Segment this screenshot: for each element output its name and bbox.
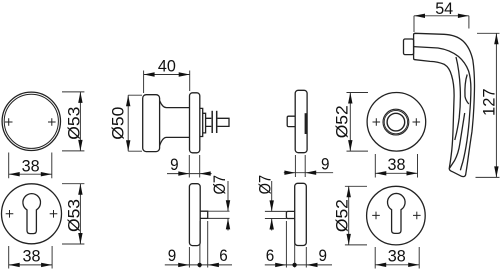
dim 9-6 left extension lines	[189, 221, 207, 268]
svg-text:127: 127	[480, 88, 499, 116]
svg-text:9: 9	[321, 154, 330, 173]
rosette TL inner ring	[4, 94, 58, 148]
dim Ø7 right dimension line	[271, 181, 273, 231]
dim 54 arrow left	[414, 14, 425, 18]
svg-text:9: 9	[170, 155, 179, 174]
knob neck top line	[160, 101, 190, 108]
svg-text:Ø50: Ø50	[109, 107, 128, 140]
knob spindle bar segment	[206, 118, 212, 126]
knob washer plate 2	[216, 111, 218, 133]
dim 9 knob-rose arrow right	[178, 171, 189, 175]
svg-text:9: 9	[319, 246, 328, 265]
screw cross TR right	[413, 118, 421, 126]
dim 9 right arrow right	[284, 171, 295, 175]
svg-text:Ø53: Ø53	[65, 107, 84, 140]
dim Ø50 arrow down	[126, 140, 130, 151]
dim Ø52 BR dimension line	[348, 186, 350, 245]
dim 54 extension lines	[414, 16, 469, 32]
dim 9-6 left arrow left	[208, 263, 219, 267]
rosette BR circle	[367, 186, 426, 245]
dim 40 arrow left	[144, 72, 155, 76]
dim Ø7 left dimension line	[227, 181, 229, 231]
dim 38 BL extension lines	[9, 246, 52, 269]
dim Ø52 BR arrow up	[347, 186, 351, 197]
svg-text:Ø7: Ø7	[256, 175, 275, 195]
dim 9 right dimension line	[284, 172, 333, 174]
knob spindle end	[218, 118, 230, 126]
dim 6-9 right arrow right	[275, 263, 286, 267]
dim Ø53 TL arrow down	[78, 140, 82, 151]
screw cross TR left	[373, 118, 381, 126]
knob head	[143, 95, 160, 152]
dim 54 dimension line	[414, 15, 469, 17]
dim Ø53 BL extension lines	[62, 184, 84, 244]
dim 127 dimension line	[495, 33, 497, 177]
dim Ø50 dimension line	[127, 95, 129, 151]
keyhole BR euro profile	[388, 193, 406, 233]
screw cross TL right	[48, 118, 56, 126]
dim 6-9 right extension lines	[286, 221, 306, 268]
dim 127 arrow down	[494, 166, 498, 177]
dim Ø53 BL dimension line	[79, 184, 81, 244]
dim Ø52 TR dimension line	[349, 93, 351, 152]
dim Ø53 BL arrow down	[78, 233, 82, 244]
dim 9 right arrow left	[305, 171, 316, 175]
hub TR outer circle	[383, 109, 409, 135]
dim 38 TR arrow left	[375, 171, 386, 175]
screw cross TL left	[5, 118, 13, 126]
dim Ø53 TL extension lines	[62, 92, 84, 151]
dim 38 BR extension lines	[375, 247, 419, 269]
svg-text:Ø52: Ø52	[333, 105, 352, 138]
dim Ø52 TR extension lines	[347, 93, 369, 152]
dim 6-9 right dimension line	[265, 264, 332, 266]
screw cross BL left	[6, 210, 14, 218]
knob washer plate 1	[211, 111, 213, 133]
dim 38 TR dimension line	[375, 172, 417, 174]
dim 127 extension lines	[476, 33, 500, 177]
handle wave groove line 3	[450, 113, 465, 168]
screw cross BR right	[413, 212, 421, 220]
dim Ø53 BL arrow up	[78, 184, 82, 195]
lower-left rose side view	[189, 184, 200, 246]
svg-text:Ø52: Ø52	[332, 199, 351, 232]
handle wave groove line 2	[465, 75, 469, 105]
dim Ø7 right arrow up	[270, 219, 274, 230]
hub TR middle ring	[384, 110, 407, 133]
screw cross BL right	[50, 210, 58, 218]
handle outline	[414, 33, 475, 176]
keyhole BL euro profile	[23, 194, 41, 234]
dim 38 TL dimension line	[9, 173, 52, 175]
dim 9 knob-rose dimension line	[167, 173, 212, 175]
dim 9 knob-rose arrow left	[200, 171, 211, 175]
dim Ø52 BR extension lines	[345, 186, 367, 245]
svg-text:Ø53: Ø53	[65, 199, 84, 232]
dim Ø53 TL dimension line	[79, 92, 81, 151]
dim 9-6 left dimension line	[165, 264, 232, 266]
svg-text:38: 38	[22, 157, 40, 176]
lower-left rose stem	[200, 211, 208, 218]
dim Ø50 arrow up	[126, 95, 130, 106]
hub TR inner circle	[387, 113, 405, 131]
dim 40 arrow right	[179, 72, 190, 76]
svg-text:6: 6	[266, 246, 275, 265]
handle wave groove line 1	[455, 57, 461, 140]
dim 9-6 left junction dot	[197, 263, 201, 267]
knob flange 1	[200, 108, 203, 136]
svg-text:Ø7: Ø7	[210, 175, 229, 195]
screw cross BR left	[372, 212, 380, 220]
lower-right rose stem	[286, 211, 294, 218]
dim 38 BR arrow left	[375, 263, 386, 267]
svg-text:9: 9	[168, 246, 177, 265]
dim 9 knob-rose extension lines	[189, 155, 199, 178]
handle middle band line	[414, 47, 471, 171]
upper-right rose side view	[295, 90, 307, 152]
svg-text:38: 38	[23, 246, 41, 265]
dim 38 BL arrow left	[9, 263, 20, 267]
lower-right rose side view	[295, 183, 307, 245]
dim Ø7 right arrow down	[270, 200, 274, 211]
dim Ø7 left extension lines	[208, 211, 230, 218]
knob rose side view	[190, 93, 200, 153]
dim 38 BL dimension line	[9, 264, 52, 266]
dim 38 BR arrow right	[408, 263, 419, 267]
dim Ø50 extension lines	[128, 95, 142, 151]
dim Ø7 right extension lines	[265, 211, 287, 218]
dim 40 dimension line	[144, 74, 190, 76]
upper-right rose nub	[287, 116, 295, 126]
dim Ø7 left arrow up	[226, 218, 230, 229]
dim 38 TL arrow right	[41, 172, 52, 176]
svg-text:38: 38	[388, 155, 406, 174]
knob flange 2	[203, 113, 206, 133]
dim 54 arrow right	[458, 14, 469, 18]
svg-text:54: 54	[435, 0, 453, 18]
handle spindle stub	[404, 39, 414, 55]
dim 127 arrow up	[494, 33, 498, 44]
svg-text:38: 38	[388, 246, 406, 265]
dim 6-9 right arrow left	[307, 263, 318, 267]
dim 38 BR dimension line	[375, 264, 419, 266]
dim 38 TR arrow right	[407, 171, 418, 175]
dim 9 right extension lines	[295, 155, 305, 177]
dim 38 TL extension lines	[9, 153, 52, 179]
dim Ø52 TR arrow down	[348, 140, 352, 151]
dim 38 TL arrow left	[9, 172, 20, 176]
svg-text:40: 40	[158, 57, 176, 76]
dim Ø7 left arrow down	[226, 200, 230, 211]
rosette BL circle	[2, 184, 62, 244]
dim 40 extension lines	[144, 71, 190, 94]
upper-right rose spring bar	[305, 113, 307, 134]
rosette TL outer circle	[2, 92, 60, 150]
dim 6-9 right junction dot	[292, 263, 296, 267]
dim Ø53 TL arrow up	[78, 92, 82, 103]
knob neck bottom line	[160, 137, 190, 145]
dim 38 TR extension lines	[375, 154, 417, 178]
dim Ø52 TR arrow up	[348, 93, 352, 104]
dim 38 BL arrow right	[41, 263, 52, 267]
rosette TR circle	[367, 93, 426, 152]
dim Ø52 BR arrow down	[347, 234, 351, 245]
svg-text:6: 6	[219, 246, 228, 265]
dim 9-6 left arrow right	[178, 263, 189, 267]
